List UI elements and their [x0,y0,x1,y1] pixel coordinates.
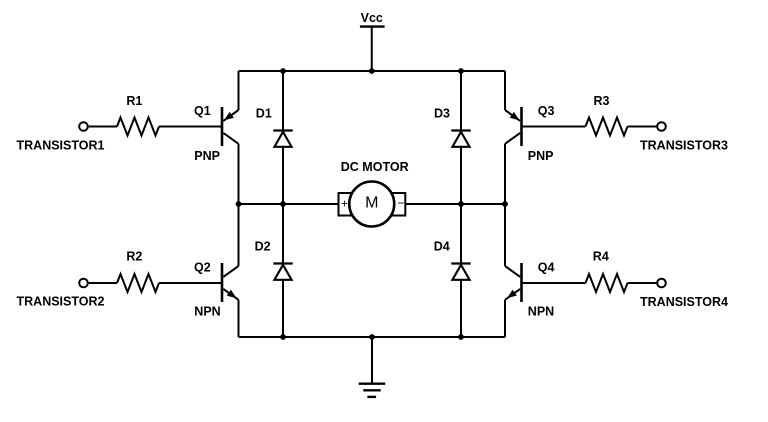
wire terminal1 to R1 [89,126,117,128]
svg-text:NPN: NPN [528,305,554,319]
terminal TRANSISTOR1 [79,122,88,131]
transistor Q3 [505,107,522,146]
svg-text:R2: R2 [126,250,142,264]
wire D2 to bottom bus [282,280,284,337]
junction dot bottom bus / D4 [458,334,464,340]
transistor Q1 [222,107,239,146]
wire Q3 emitter to top bus [504,71,506,110]
svg-text:TRANSISTOR2: TRANSISTOR2 [17,294,105,308]
wire D1 to node A [282,147,284,204]
transistor Q2 [222,263,239,302]
svg-text:PNP: PNP [194,149,220,163]
svg-text:+: + [341,197,348,211]
junction dot top bus / D1 [280,68,286,74]
resistor R2 [117,274,159,292]
terminal TRANSISTOR3 [657,122,666,131]
svg-text:R1: R1 [126,94,142,108]
svg-text:Q4: Q4 [538,261,555,275]
resistor R3 [586,118,628,136]
wire D4 to bottom bus [460,280,462,337]
junction dot node B / D3-D4 [458,201,464,207]
wire top bus [239,70,506,72]
svg-text:TRANSISTOR3: TRANSISTOR3 [640,139,728,153]
wire Q2 collector to node A [238,204,240,266]
terminal TRANSISTOR4 [657,279,666,288]
svg-text:−: − [397,196,404,210]
wire Q4 emitter to bottom bus [504,300,506,337]
svg-text:R3: R3 [594,94,610,108]
wire R2 to Q2 base [159,282,222,284]
wire R4 to terminal4 [628,282,657,284]
svg-text:D4: D4 [434,239,450,253]
svg-text:NPN: NPN [194,305,220,319]
wire Q3 base to R3 [522,126,586,128]
svg-text:Q1: Q1 [194,104,211,118]
motor terminal box - [392,193,405,216]
wire terminal2 to R2 [89,282,117,284]
svg-text:TRANSISTOR1: TRANSISTOR1 [17,138,105,152]
svg-text:Q3: Q3 [538,104,555,118]
junction dot node A / D1-D2 [280,201,286,207]
motor terminal box + [339,193,352,216]
junction dot bottom bus / D2 [280,334,286,340]
wire top bus to D1 [282,71,284,131]
diode D4 [451,264,470,280]
wire Q4 collector to node B [504,204,506,266]
diode D2 [273,264,292,280]
svg-text:D1: D1 [256,106,272,120]
svg-text:TRANSISTOR4: TRANSISTOR4 [640,295,728,309]
junction dot node B / Q3-Q4 [502,201,508,207]
motor M1 [349,182,394,227]
ground [359,384,386,397]
resistor R4 [586,274,628,292]
wire VCC stem [371,27,373,71]
junction dot node A / Q1-Q2 [236,201,242,207]
svg-text:Q2: Q2 [194,261,211,275]
wire ground stem [371,337,373,384]
svg-text:M: M [365,195,378,212]
wire D3 to node B [460,147,462,204]
junction dot top bus / VCC [369,68,375,74]
wire bottom bus [239,336,506,338]
wire Q2 emitter to bottom bus [238,300,240,337]
resistor R1 [117,118,159,136]
wire R1 to Q1 base [159,126,222,128]
power VCC symbol [360,11,385,27]
wire R3 to terminal3 [628,126,657,128]
svg-text:Vcc: Vcc [361,11,383,25]
svg-text:R4: R4 [593,250,609,264]
svg-text:PNP: PNP [528,149,554,163]
wire top bus to D3 [460,71,462,131]
wire node B to D4 [460,204,462,264]
wire Q3 collector to node B [504,144,506,204]
transistor Q4 [505,263,522,302]
svg-text:D2: D2 [255,239,271,253]
diode D3 [451,131,470,147]
svg-text:D3: D3 [434,106,450,120]
wire Q1 collector to node A [238,144,240,204]
wire node A to D2 [282,204,284,264]
svg-text:DC MOTOR: DC MOTOR [341,160,409,174]
wire Q4 base to R4 [522,282,586,284]
diode D1 [273,131,292,147]
wire Q1 emitter to top bus [238,71,240,110]
wire middle node line (node A to node B) [239,203,506,205]
terminal TRANSISTOR2 [79,279,88,288]
junction dot bottom bus / ground [369,334,375,340]
junction dot top bus / D3 [458,68,464,74]
